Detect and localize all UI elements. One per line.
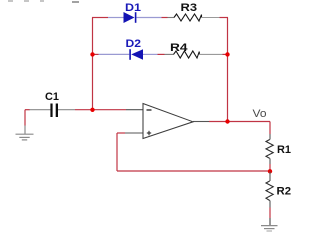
junction: node A (C1 / branch / op-amp minus) — [90, 108, 94, 112]
resistor R3 — [168, 14, 220, 21]
wire: R2 to ground — [269, 208, 271, 219]
diode D2 — [99, 49, 158, 60]
junction: left branch / D2 — [90, 52, 94, 56]
svg-text:C1: C1 — [45, 91, 59, 103]
svg-text:Vo: Vo — [253, 108, 267, 120]
wire: output net to Vo / R1 — [209, 122, 270, 135]
op-amp U1 — [125, 104, 209, 139]
wire: inverting input net (C1 to op-amp) — [25, 110, 126, 126]
wire: D1 branch horizontal red segments — [92, 17, 228, 19]
ground (bottom right) — [261, 218, 278, 231]
svg-text:R3: R3 — [181, 2, 198, 14]
junction: R1/R2 divider node — [268, 169, 272, 173]
junction: output node — [225, 119, 229, 123]
resistor R1 — [266, 134, 273, 164]
resistor R4 — [165, 51, 223, 58]
wire: left branch vertical (node A to D1/D2 branch) — [92, 18, 94, 111]
svg-text:R4: R4 — [170, 42, 189, 54]
capacitor C1 — [29, 104, 75, 118]
cropped text remnants at top edge — [8, 1, 79, 2]
ground (left, at C1) — [16, 126, 34, 140]
wire: divider node segment — [269, 164, 271, 172]
diode D1 — [108, 12, 162, 23]
svg-text:R1: R1 — [277, 144, 291, 156]
junction: right vertical / D2-R4 — [225, 52, 229, 56]
wire: feedback from R1/R2 divider to op-amp plus input — [117, 133, 270, 171]
wire: D2 branch horizontal red segments — [93, 53, 228, 55]
svg-text:D2: D2 — [126, 38, 142, 50]
resistor R2 — [266, 172, 273, 208]
wire: right vertical (output node up to R3/R4) — [227, 18, 229, 122]
svg-text:D1: D1 — [125, 2, 141, 14]
svg-text:R2: R2 — [277, 186, 292, 198]
